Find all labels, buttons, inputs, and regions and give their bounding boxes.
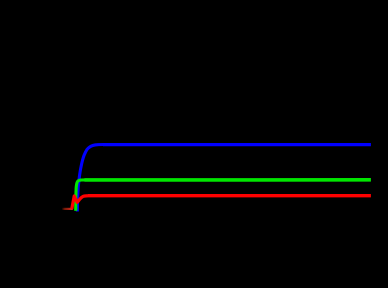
green curve plateau: [85, 178, 371, 182]
red curve plateau: [88, 194, 371, 197]
red curve spike and dip: [72, 196, 88, 209]
blue curve rise: [77, 145, 103, 212]
green curve rise: [76, 180, 85, 211]
blue curve plateau: [103, 143, 371, 146]
red baseline dark segment: [62, 208, 73, 210]
